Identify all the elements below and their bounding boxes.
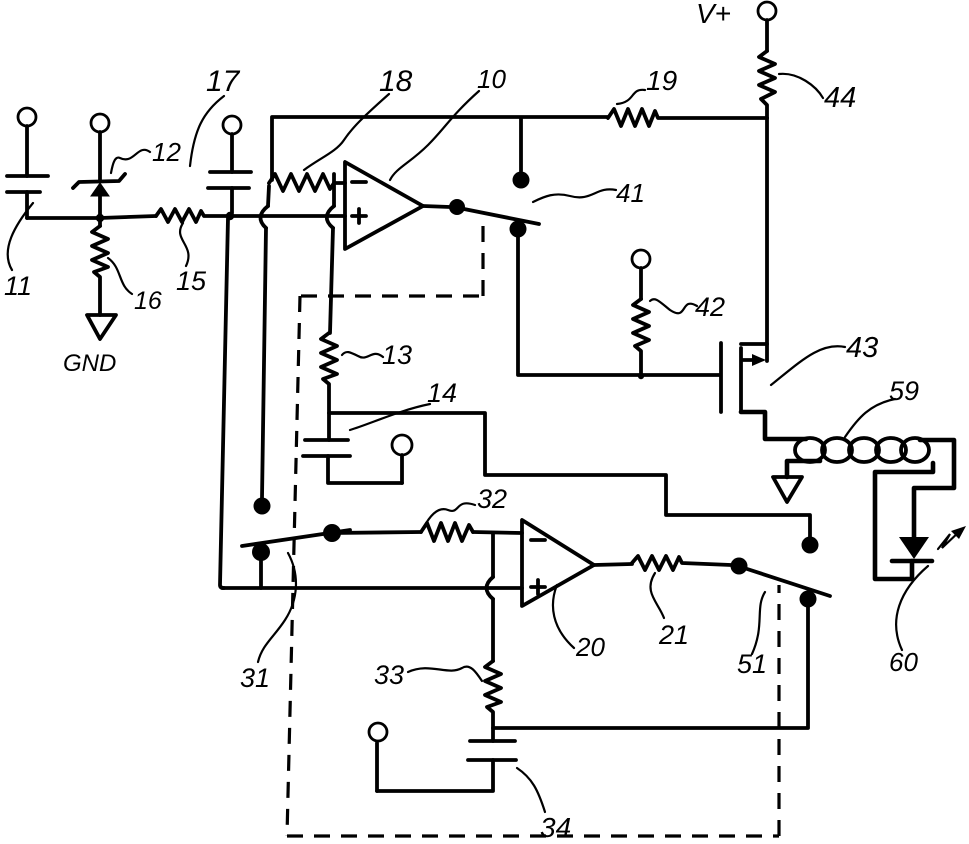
leader 14 (350, 404, 430, 430)
leader 43 (771, 346, 845, 385)
wire feedback down with hop to R33 (487, 533, 494, 661)
transistor Q43 (MOSFET) (721, 343, 806, 439)
leader 16 (108, 258, 132, 294)
leader 12 (111, 150, 150, 173)
leader 19 (617, 90, 645, 104)
resistor R13 (321, 333, 337, 440)
terminal of C14 (392, 435, 412, 483)
LED D60 (892, 537, 932, 561)
svg-text:12: 12 (152, 137, 181, 167)
ground symbol GND (87, 315, 116, 339)
svg-text:18: 18 (379, 65, 413, 98)
wire coil right top loop (914, 440, 954, 537)
switch S31 (242, 498, 350, 589)
dashed box notch (481, 218, 484, 296)
svg-text:16: 16 (134, 287, 162, 315)
wire op20 output (594, 564, 632, 565)
leader 20 (553, 585, 574, 648)
svg-text:42: 42 (695, 292, 725, 322)
leader 13 (342, 352, 383, 358)
svg-text:59: 59 (889, 376, 919, 406)
svg-text:21: 21 (658, 620, 689, 650)
junction dot R42/gate wire (638, 373, 644, 379)
leader 17 (190, 96, 224, 166)
leader 31 (258, 553, 296, 662)
svg-text:10: 10 (477, 64, 506, 94)
node input junction (226, 212, 234, 220)
wire feedback vertical with hop (260, 186, 269, 498)
leader 59 (845, 399, 895, 437)
zener diode 12 (73, 174, 125, 226)
switch S41 (459, 172, 539, 238)
leader 44 (779, 74, 823, 98)
capacitor C11 (7, 176, 48, 218)
wire coil right bottom loop (875, 463, 933, 579)
resistor R18 (269, 174, 334, 191)
wire switch31 to R32 (332, 532, 421, 533)
resistor R32 (421, 523, 473, 541)
wire R32 to minus input (473, 532, 522, 533)
leader 42 (650, 299, 697, 313)
wire op-amp20 plus input (222, 586, 522, 590)
wire switch41 to FET gate (518, 237, 719, 375)
dashed box bottom edge (287, 834, 779, 837)
wire switch51 down to feedback bus (493, 607, 808, 728)
inductor L59 (795, 438, 929, 462)
resistor R16 (92, 226, 108, 315)
wire drop to switch 41 upper contact (519, 118, 523, 171)
wire R18 to minus input (334, 181, 345, 185)
svg-text:11: 11 (4, 271, 32, 301)
svg-text:17: 17 (206, 65, 241, 98)
terminal of capacitor 11 (18, 108, 36, 176)
svg-text:43: 43 (846, 332, 878, 364)
dashed box right edge (777, 585, 780, 836)
leader 15 (180, 223, 188, 266)
wire input bus (27, 216, 156, 218)
terminal of C34 (369, 723, 387, 791)
switch S51 (731, 537, 831, 608)
svg-text:34: 34 (540, 812, 571, 843)
leader 33 (408, 667, 482, 681)
svg-text:41: 41 (616, 178, 645, 208)
resistor R42 (633, 299, 649, 375)
leader 18 (304, 94, 389, 170)
leader 10 (390, 91, 479, 180)
leader 34 (517, 768, 545, 812)
leader 41 (533, 189, 616, 202)
leader 60 (896, 566, 928, 650)
wire staircase C14 to switch 51 (329, 413, 810, 537)
terminal of R42 (632, 250, 650, 299)
resistor R44 (759, 51, 775, 118)
wire minus node down with hop to R13 (327, 174, 334, 333)
resistor R21 (632, 556, 731, 570)
leader 32 (424, 503, 475, 527)
leader 51 (752, 592, 765, 654)
svg-text:15: 15 (176, 266, 207, 296)
capacitor C34 (377, 741, 516, 791)
terminal V+ (758, 2, 776, 51)
svg-text:20: 20 (575, 632, 605, 662)
terminal of capacitor 17 (223, 116, 241, 172)
wire V+ down to FET drain (765, 118, 769, 361)
capacitor C17 (208, 172, 251, 213)
feedback top wire (272, 117, 608, 180)
wire vertical to lower section (hops bus) (220, 218, 228, 588)
svg-text:V+: V+ (696, 0, 731, 29)
wire bus to op-amp plus input (230, 214, 345, 218)
svg-text:33: 33 (374, 660, 404, 690)
svg-text:19: 19 (646, 65, 677, 96)
svg-text:13: 13 (382, 340, 412, 370)
dashed box left edge (287, 296, 300, 836)
junction dot zener/bus (96, 214, 104, 222)
dashed box top edge (301, 294, 483, 297)
capacitor C14 (303, 440, 402, 483)
terminal of zener 12 (91, 114, 109, 181)
op-amp U10 (345, 162, 423, 249)
svg-text:32: 32 (477, 484, 507, 514)
node op10 output (449, 199, 465, 215)
resistor R15 (156, 209, 227, 222)
LED emission arrow (938, 526, 966, 549)
leader 11 (8, 203, 33, 270)
wire op10 output (423, 206, 450, 207)
resistor R33 (485, 661, 501, 741)
leader 21 (650, 573, 664, 618)
svg-text:GND: GND (63, 350, 116, 377)
wire coil left to ground (773, 461, 820, 502)
svg-text:44: 44 (824, 82, 856, 114)
svg-text:31: 31 (240, 663, 270, 693)
resistor R19 (608, 109, 767, 126)
svg-text:60: 60 (889, 647, 918, 677)
svg-text:14: 14 (427, 378, 457, 408)
op-amp U20 (522, 520, 594, 606)
